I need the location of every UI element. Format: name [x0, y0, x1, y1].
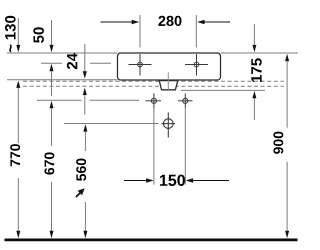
- label 770: [10, 144, 20, 166]
- wire 770 height extension line: [7, 79, 118, 81]
- wire mounting-hole height extension line right part: [90, 62, 111, 64]
- dimension 280 right arrow: [197, 20, 230, 24]
- wire supply height extension line: [37, 99, 82, 101]
- siphon trapezoid: [159, 81, 178, 90]
- dimension 175 upper arrow: [252, 24, 256, 52]
- dimension 50 upper arrow: [50, 20, 54, 52]
- dimension 280 left arrow: [101, 20, 140, 24]
- dimension 670 vertical line: [50, 101, 54, 238]
- dimension 24 upper arrow: [83, 44, 87, 79]
- dimension 280 extension line right: [195, 15, 197, 48]
- node supply connection right (crosshair): [178, 93, 193, 108]
- wire 150 extension line right: [184, 108, 186, 184]
- label 175: [251, 58, 261, 82]
- label ~130: [5, 16, 16, 40]
- dimension 560 diagonal pointer arrow: [76, 188, 85, 197]
- washbasin outline: [118, 53, 221, 80]
- dimension 280 extension line left: [139, 15, 141, 48]
- dimension 770 vertical line: [16, 81, 20, 239]
- dimension ~130 line and arrow: [16, 18, 20, 52]
- dimension 24 lower arrow: [83, 88, 87, 115]
- dimension 50 lower arrow: [50, 64, 54, 96]
- wire drain height extension line: [64, 123, 159, 125]
- node supply connection left (crosshair): [146, 93, 162, 108]
- dimension 150 right arrow: [186, 178, 229, 182]
- node mounting hole left (crosshair): [129, 54, 152, 76]
- dimension 175 lower arrow: [252, 91, 256, 120]
- wire rim-top extension line right: [221, 52, 299, 54]
- dimension 150 left arrow: [124, 178, 154, 182]
- label 900: [273, 132, 283, 154]
- wire 150 extension line left: [153, 108, 155, 184]
- wire supply height extension line right part: [90, 99, 140, 101]
- wire 175 bottom extension line: [181, 89, 265, 91]
- label 150: [160, 175, 185, 186]
- wire hidden dashed line lower: [23, 85, 284, 87]
- node mounting hole right (crosshair): [185, 54, 208, 76]
- label 24: [67, 53, 78, 69]
- dimension 900 vertical line: [285, 54, 289, 238]
- wire hidden dashed line upper: [23, 80, 284, 82]
- wire mounting-hole height extension line: [41, 62, 62, 64]
- label 560: [76, 158, 86, 180]
- label 670: [44, 152, 54, 174]
- node centerline through siphon: [167, 72, 169, 91]
- dimension 560 vertical line: [83, 124, 87, 238]
- label 280: [158, 16, 181, 26]
- wire rim-top extension line left: [7, 52, 118, 54]
- floor line: [5, 238, 298, 241]
- node drain connection (circle with cross): [162, 113, 176, 138]
- label 50: [33, 27, 44, 43]
